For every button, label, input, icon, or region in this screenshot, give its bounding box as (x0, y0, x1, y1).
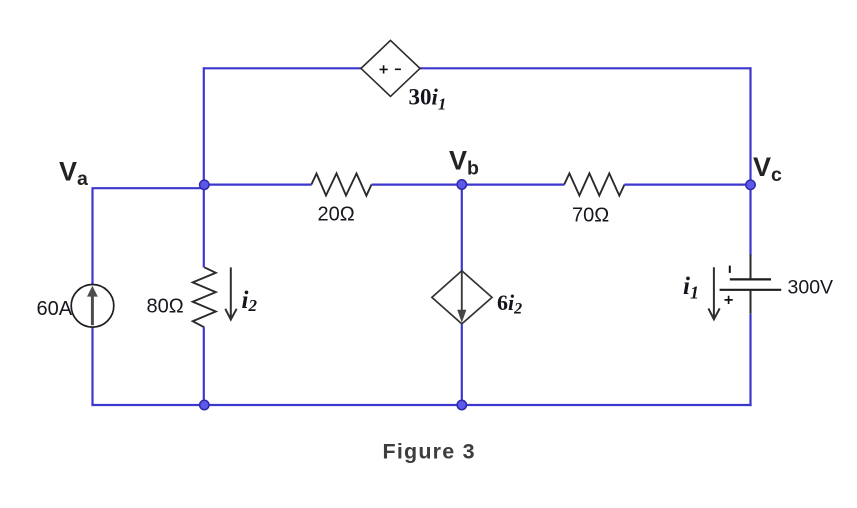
wire bottom horizontal (91, 404, 751, 406)
wire 6i2 branch lower (461, 324, 463, 405)
resistor R3 80ohm zigzag (vertical) (193, 267, 216, 327)
wire left riser x=204 (top wire down to middle wire) (203, 67, 205, 185)
wire 80ohm branch upper (203, 185, 205, 268)
wire middle-left (node to 20 ohm) (204, 184, 312, 186)
wire middle-right (70 ohm to Vc node) (625, 184, 751, 186)
battery V1 300V (720, 255, 782, 314)
current source I1 60A (circle) (71, 285, 114, 328)
svg-text:80Ω: 80Ω (147, 295, 184, 317)
wire 80ohm branch lower (203, 327, 205, 405)
wire 6i2 branch upper (Vb down to source) (461, 185, 463, 272)
junction dot bottom 80ohm branch (200, 400, 209, 409)
wire middle-center (20 ohm to 70 ohm through Vb) (372, 184, 565, 186)
wire right branch lower (battery to bottom wire) (749, 314, 751, 406)
current source arrow (up) (87, 286, 98, 325)
svg-text:70Ω: 70Ω (572, 205, 609, 227)
svg-text:Vc: Vc (753, 152, 782, 186)
6i2 source arrow (down) (457, 272, 466, 323)
resistor R2 70ohm zigzag (564, 173, 624, 195)
junction dot node Vb (457, 180, 466, 189)
wire top-left horizontal (left riser to 30i1 source) (204, 67, 362, 69)
svg-text:6i2: 6i2 (497, 290, 522, 318)
svg-text:Vb: Vb (449, 146, 479, 180)
svg-text:300V: 300V (788, 277, 834, 299)
battery polarity marks (725, 266, 733, 304)
svg-text:Figure 3: Figure 3 (383, 439, 476, 463)
svg-text:30i1: 30i1 (409, 84, 447, 113)
svg-text:i1: i1 (683, 273, 699, 303)
junction dot node Vc (746, 180, 755, 189)
dependent current source U2 6i2 (diamond) (432, 271, 492, 324)
junction dot bottom 6i2 branch (457, 400, 466, 409)
wire Va stub (Va corner to node dot) (93, 187, 205, 189)
svg-text:20Ω: 20Ω (318, 204, 355, 226)
current arrow i1 (down, beside battery) (708, 267, 719, 319)
resistor R1 20ohm zigzag (311, 173, 371, 195)
svg-text:60A: 60A (37, 298, 73, 320)
svg-text:Va: Va (59, 156, 88, 190)
wire right riser x=750.5 (top wire down to battery top) (749, 67, 751, 255)
current arrow i2 (down, beside 80ohm) (225, 267, 236, 319)
junction dot node Va branch (200, 180, 209, 189)
wire top-right horizontal (30i1 source to right riser) (419, 67, 751, 69)
wire left branch lower (current source to bottom wire) (91, 325, 93, 405)
wire left branch upper (Va corner down to current source) (91, 187, 93, 286)
svg-text:i2: i2 (242, 287, 258, 315)
dependent voltage source U1 30i1 (diamond) (361, 40, 420, 96)
